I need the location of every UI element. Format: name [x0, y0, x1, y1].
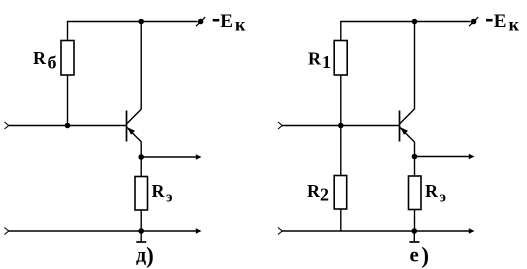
wire: collector up to top rail (д) [140, 22, 142, 110]
wire: emitter output with arrow (е) [415, 154, 475, 160]
wire: top rail from Rб corner to -Ek terminal [68, 22, 198, 42]
node: Rб / base junction [65, 123, 71, 129]
terminal chevron: base input (д) [5, 122, 9, 129]
wire: bottom rail with arrow (д) [9, 228, 202, 234]
terminal chevron: bottom rail input (д) [5, 228, 9, 235]
resistor R1 [334, 41, 347, 76]
node: divider / base junction [338, 123, 344, 129]
svg-text:д): д) [136, 243, 154, 268]
wire: divider node down to R2 top [340, 126, 342, 176]
label -Eк (е) [486, 11, 520, 34]
wire: node to Rэ top (е) [414, 157, 416, 177]
node: bottom rail junction (д) [138, 228, 144, 234]
terminal -Ek supply (д) [196, 17, 205, 26]
wire: collector up to top rail (е) [414, 22, 416, 110]
node: collector junction on top rail (е) [412, 19, 418, 25]
transistor VT2 (PNP, е) [400, 109, 415, 141]
terminal -Ek supply (е) [469, 17, 478, 26]
wire: base input rail (е) [282, 125, 400, 127]
resistor R2 [334, 176, 347, 210]
wire: top rail from R1 corner to -Ek terminal (е) [341, 22, 471, 42]
transistor VT1 (PNP, д) [127, 109, 142, 141]
resistor Rэ (д) [135, 177, 148, 211]
wire: Rэ bottom to bottom rail (д) [140, 210, 142, 231]
svg-text:R2: R2 [307, 181, 329, 204]
wire: node to Rэ top (д) [140, 157, 142, 177]
wire: base input rail (д) [9, 125, 127, 127]
wire: R2 bottom to bottom rail [340, 209, 342, 231]
terminal chevron: base input (е) [278, 122, 282, 129]
wire: Rб bottom to base rail [67, 75, 69, 126]
ground tick (е) [409, 231, 419, 242]
node: emitter output junction (е) [412, 154, 418, 160]
wire: R1 bottom to base rail (е) [340, 75, 342, 126]
wire: emitter down to output node (д) [140, 142, 142, 158]
label -Eк (д) [213, 11, 246, 34]
wire: emitter output with arrow (д) [141, 154, 201, 160]
node: collector junction on top rail [138, 19, 144, 25]
resistor Rэ (е) [409, 176, 422, 210]
ground tick (д) [136, 231, 146, 242]
node: emitter output junction (д) [138, 154, 144, 160]
wire: Rэ bottom to bottom rail (е) [414, 210, 416, 232]
resistor Rб [61, 41, 74, 76]
wire: emitter down to output node (е) [414, 142, 416, 157]
node: bottom rail junction (е) [412, 228, 418, 234]
terminal chevron: bottom rail input (е) [278, 228, 282, 235]
wire: bottom rail with arrow (е) [282, 228, 475, 234]
